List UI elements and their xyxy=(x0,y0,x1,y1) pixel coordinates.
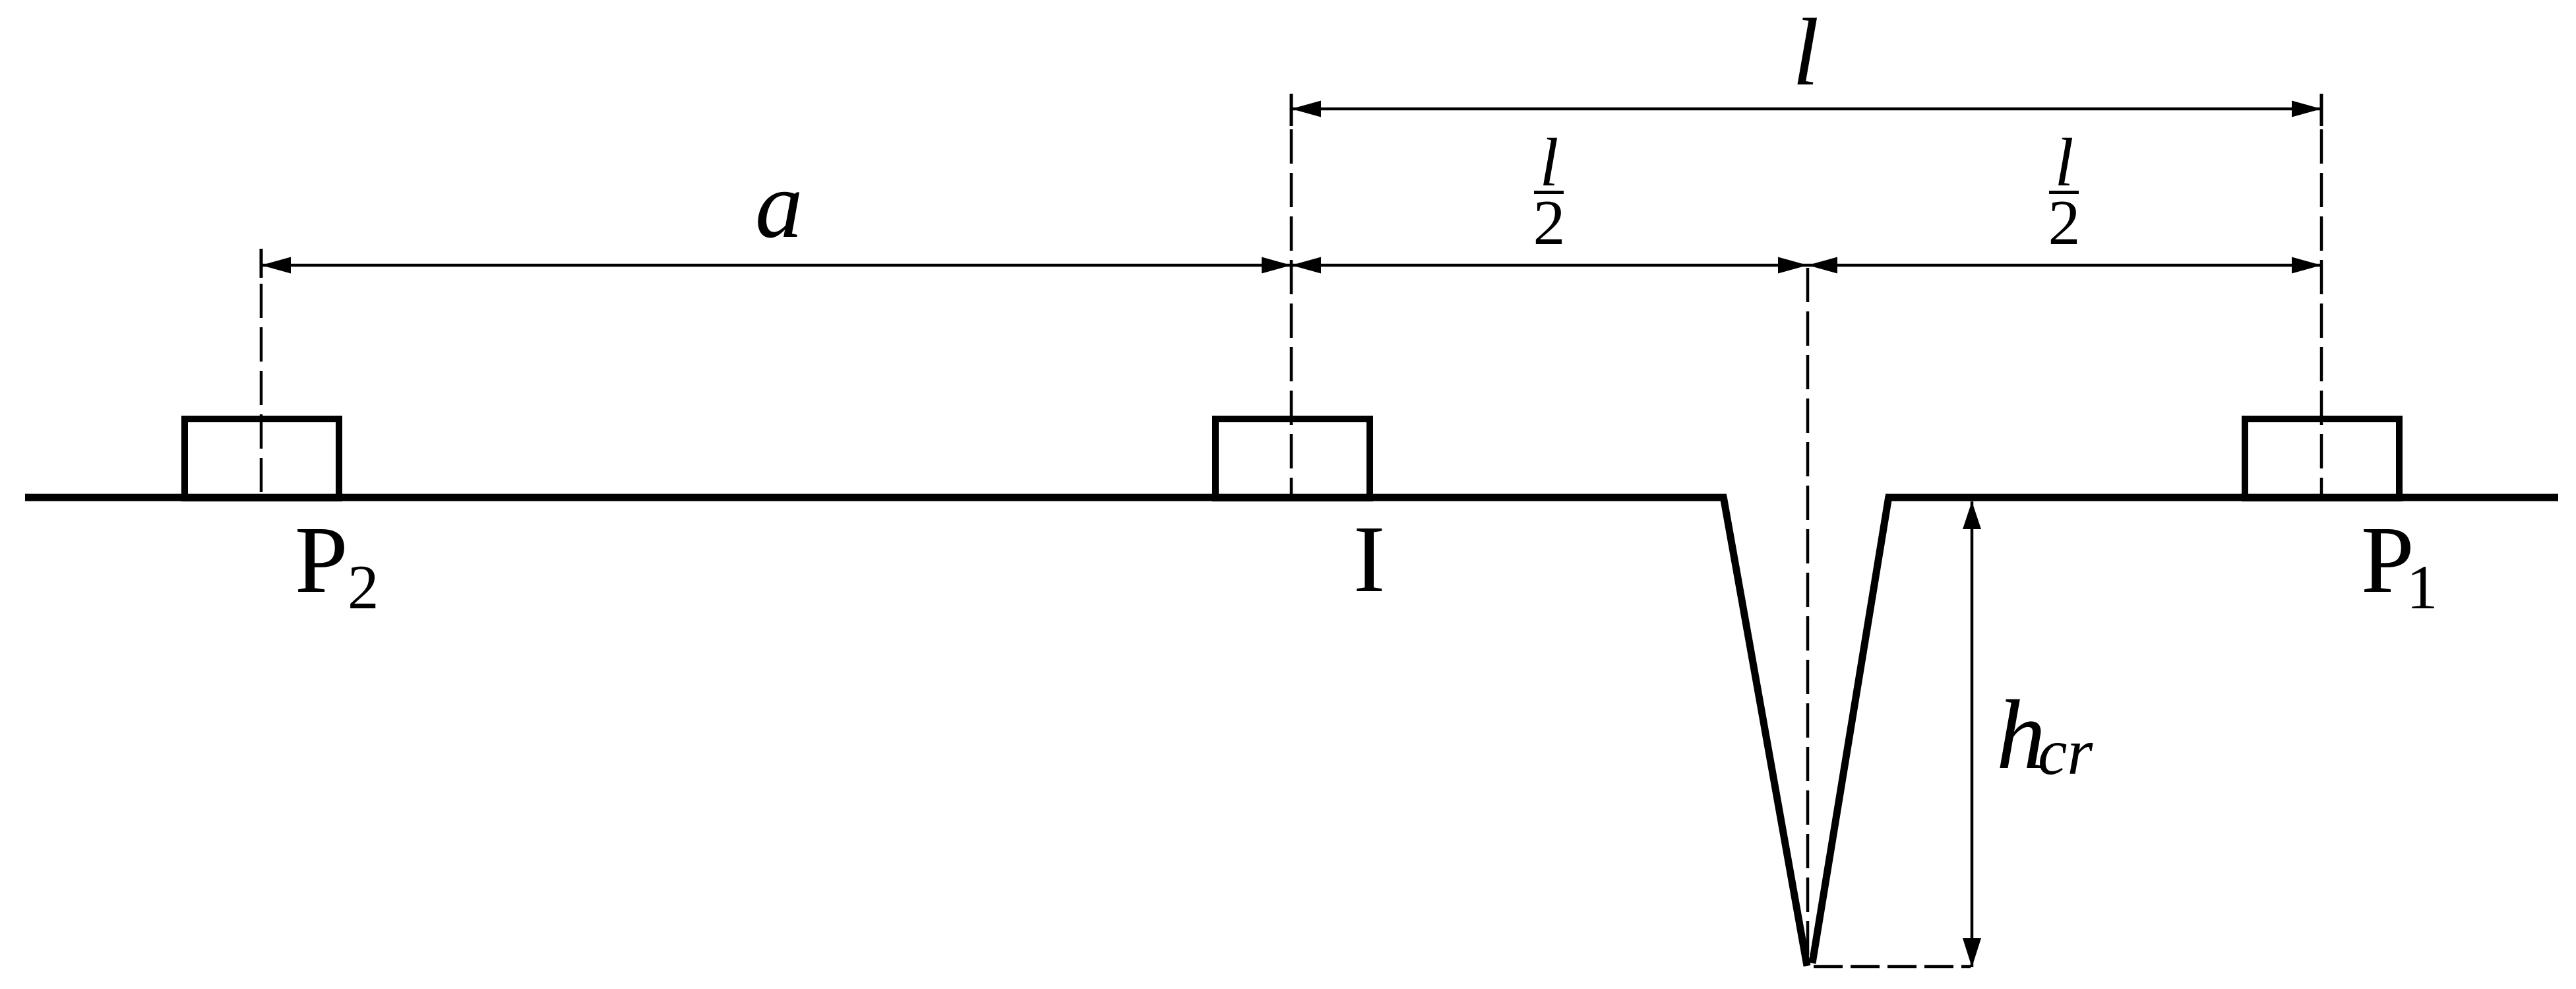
svg-text:2: 2 xyxy=(348,552,379,622)
dashed leader at crack tip xyxy=(1814,965,1971,969)
tick at a line left xyxy=(260,249,263,278)
crack left wall xyxy=(1723,496,1807,966)
arrowhead l right xyxy=(2292,101,2321,117)
fraction bar right xyxy=(2049,191,2079,194)
centreline crack dashed xyxy=(1806,268,1810,962)
svg-text:cr: cr xyxy=(2038,715,2093,788)
centreline I dashed xyxy=(1290,129,1293,497)
arrowhead h_cr bottom xyxy=(1963,938,1981,967)
dimension line l xyxy=(1291,108,2321,111)
svg-text:2: 2 xyxy=(2048,187,2081,259)
svg-text:l: l xyxy=(1793,0,1820,106)
centreline P1 dashed xyxy=(2320,129,2323,497)
crack right wall xyxy=(1812,496,1889,963)
tick at l line right xyxy=(2320,94,2323,126)
arrowhead a right xyxy=(1262,257,1291,274)
fraction bar left xyxy=(1534,191,1564,194)
arrowhead l/2 right at centre xyxy=(1778,257,1808,274)
svg-text:2: 2 xyxy=(1533,187,1566,259)
arrowhead l/2 left outward xyxy=(1291,257,1321,274)
dimension chain line a and l/2 xyxy=(261,264,2321,267)
svg-text:1: 1 xyxy=(2407,552,2438,622)
transducer I body xyxy=(1215,419,1370,498)
dimension line h_cr xyxy=(1971,501,1974,967)
surface line right segment xyxy=(1886,494,2558,501)
arrowhead a left xyxy=(261,257,291,274)
tick at l line left xyxy=(1290,94,1293,126)
transducer P1 body xyxy=(2245,419,2399,498)
arrowhead second l/2 right xyxy=(2292,257,2321,274)
arrowhead second l/2 left at centre xyxy=(1808,257,1837,274)
svg-text:P: P xyxy=(295,507,348,613)
transducer P2 body xyxy=(185,419,339,498)
arrowhead l left xyxy=(1291,101,1321,117)
surface line left segment xyxy=(25,494,1727,501)
centreline P2 dashed xyxy=(260,284,263,497)
arrowhead h_cr top xyxy=(1963,501,1981,529)
svg-text:a: a xyxy=(755,152,803,258)
svg-text:I: I xyxy=(1353,507,1385,612)
